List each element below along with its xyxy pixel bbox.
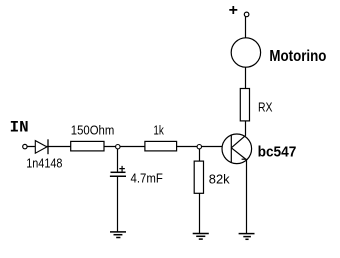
svg-text:82k: 82k	[209, 172, 230, 187]
svg-text:Motorino: Motorino	[269, 48, 326, 65]
svg-text:RX: RX	[258, 100, 273, 115]
svg-text:4.7mF: 4.7mF	[131, 172, 164, 186]
svg-text:IN: IN	[10, 118, 29, 136]
svg-text:bc547: bc547	[258, 144, 297, 161]
svg-text:150Ohm: 150Ohm	[71, 123, 115, 138]
svg-text:+: +	[119, 163, 125, 175]
svg-text:1k: 1k	[153, 123, 164, 138]
svg-text:+: +	[229, 2, 238, 19]
svg-text:1n4148: 1n4148	[26, 157, 62, 171]
